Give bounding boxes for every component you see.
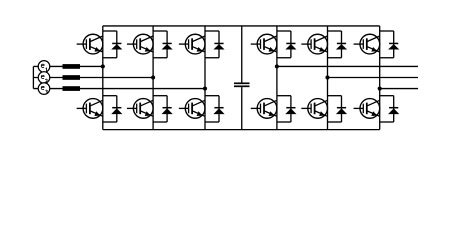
wire: Q12 collector-diode jog [380,95,394,97]
diode D3 (anti-parallel) [162,31,173,58]
transistor Q9 (IGBT) [301,34,327,54]
transistor Q3 (IGBT) [127,34,153,54]
wire: Q1 emitter-diode jog [103,57,117,59]
transistor Q6 (IGBT) [179,99,205,119]
transistor Q8 (IGBT) [251,99,277,119]
node: rectifier phase b junction [151,75,155,79]
wire: Q9 collector-diode jog [328,30,342,32]
transistor Q1 (IGBT) [77,34,103,54]
wire: input phase a line [33,65,102,67]
wire: Q8 collector-diode jog [277,95,291,97]
wire: Q3 emitter-diode jog [153,57,167,59]
wire: Q1 collector-diode jog [103,30,117,32]
wire: Q6 collector-diode jog [205,95,219,97]
AC source e2 [38,72,50,84]
node: rectifier phase c junction [203,86,207,90]
diode D7 (anti-parallel) [285,31,296,58]
wire: Q7 collector-diode jog [277,30,291,32]
diode D6 (anti-parallel) [213,96,224,122]
wire: Q6 emitter-diode jog [205,121,219,123]
wire: output phase a line [277,65,418,67]
inductor L3 (line reactor box) [63,86,81,91]
wire: Q3 collector-diode jog [153,30,167,32]
wire: phase leg 5 vertical [327,26,329,130]
wire: Q7 emitter-diode jog [277,57,291,59]
node: inverter phase c junction [378,86,382,90]
wire: phase leg 1 vertical [102,26,104,130]
inductor L1 (line reactor box) [63,64,81,69]
wire: positive DC rail [103,25,380,27]
wire: Q10 emitter-diode jog [328,121,342,123]
wire: output phase b line [328,77,419,79]
AC source e1 [38,61,50,73]
wire: phase leg 3 vertical [204,26,206,130]
wire: input phase b line [33,77,153,79]
diode D1 (anti-parallel) [111,31,122,58]
diode D8 (anti-parallel) [285,96,296,122]
node: inverter phase b junction [325,75,329,79]
wire: Q4 emitter-diode jog [153,121,167,123]
wire: Q11 collector-diode jog [380,30,394,32]
node: inverter phase a junction [275,64,279,68]
transistor Q11 (IGBT) [354,34,380,54]
wire: Q5 emitter-diode jog [205,57,219,59]
AC source e3 [38,83,50,95]
wire: Q5 collector-diode jog [205,30,219,32]
wire: output phase c line [380,88,418,90]
transistor Q5 (IGBT) [179,34,205,54]
diode D12 (anti-parallel) [388,96,399,122]
transistor Q10 (IGBT) [301,99,327,119]
wire: phase leg 6 vertical [379,26,381,130]
diode D4 (anti-parallel) [162,96,173,122]
wire: DC-link capacitor bottom lead [241,87,243,130]
wire: negative DC rail [103,129,380,131]
diode D11 (anti-parallel) [388,31,399,58]
transistor Q7 (IGBT) [251,34,277,54]
wire: source neutral bus [32,66,34,88]
transistor Q4 (IGBT) [127,99,153,119]
wire: Q2 emitter-diode jog [103,121,117,123]
capacitor C (DC link) [234,83,250,86]
wire: Q12 emitter-diode jog [380,121,394,123]
wire: Q11 emitter-diode jog [380,57,394,59]
wire: DC-link capacitor top lead [241,26,243,83]
transistor Q2 (IGBT) [77,99,103,119]
wire: phase leg 4 vertical [276,26,278,130]
wire: input phase c line [33,88,205,90]
inductor L2 (line reactor box) [63,75,81,80]
wire: Q8 emitter-diode jog [277,121,291,123]
diode D10 (anti-parallel) [336,96,347,122]
wire: Q9 emitter-diode jog [328,57,342,59]
wire: Q2 collector-diode jog [103,95,117,97]
diode D5 (anti-parallel) [213,31,224,58]
wire: phase leg 2 vertical [152,26,154,130]
wire: Q10 collector-diode jog [328,95,342,97]
diode D9 (anti-parallel) [336,31,347,58]
transistor Q12 (IGBT) [354,99,380,119]
wire: Q4 collector-diode jog [153,95,167,97]
diode D2 (anti-parallel) [111,96,122,122]
node: rectifier phase a junction [101,64,105,68]
